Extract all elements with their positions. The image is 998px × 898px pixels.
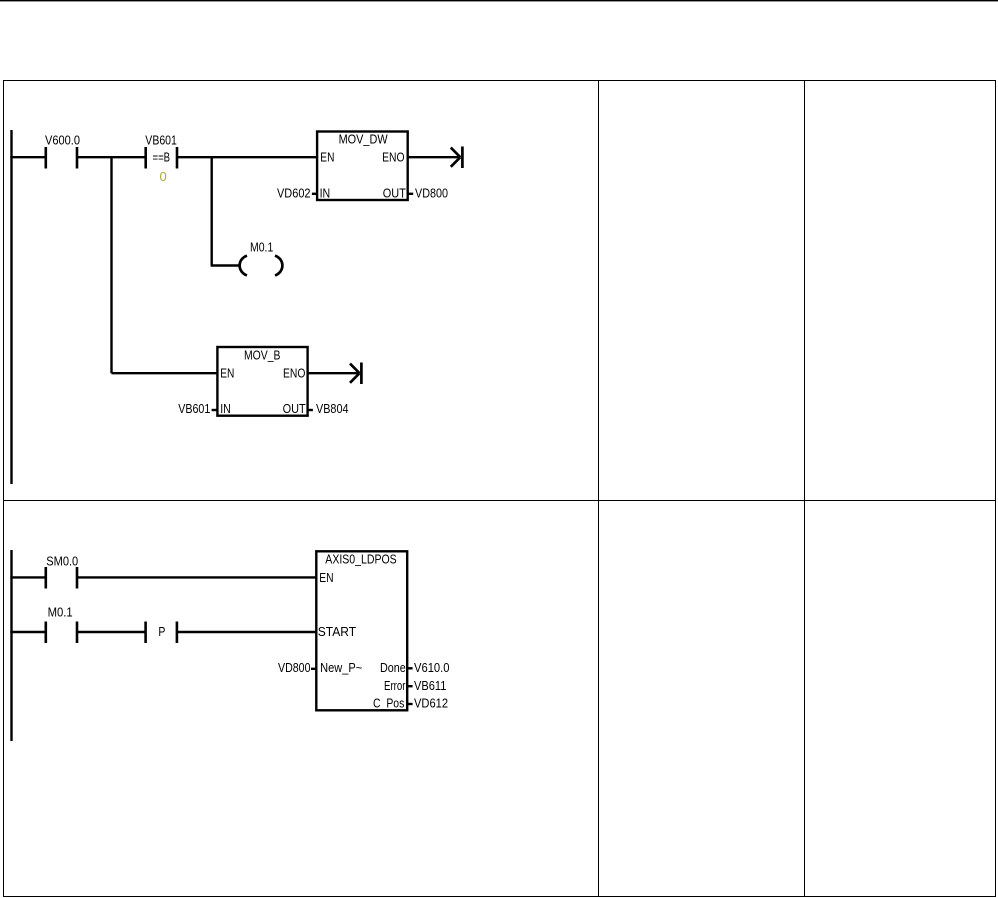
tick OUT to VB804: [308, 409, 313, 411]
svg-text:EN: EN: [220, 366, 234, 381]
svg-text:EN: EN: [319, 570, 333, 585]
svg-text:M0.1: M0.1: [48, 605, 73, 620]
svg-text:OUT: OUT: [283, 401, 306, 416]
contact ==B (compare byte): [146, 147, 177, 169]
svg-text:VB601: VB601: [178, 401, 210, 416]
tick Done to V610.0: [406, 667, 413, 669]
wire P to START: [177, 631, 316, 633]
wire SM0.0 to AXIS0_LDPOS EN: [77, 576, 316, 578]
network 1 left power rail: [10, 130, 12, 484]
table column divider 2: [804, 80, 806, 897]
svg-text:P: P: [158, 624, 165, 639]
svg-text:==B: ==B: [153, 149, 171, 164]
box MOV_DW: [317, 132, 408, 201]
svg-text:VB804: VB804: [316, 401, 349, 416]
wire ==B to MOV_DW EN: [177, 156, 317, 158]
top page rule: [0, 0, 998, 1]
svg-text:ENO: ENO: [283, 366, 305, 381]
open-wire arrow (network 1 rung): [451, 147, 463, 169]
svg-text:VB611: VB611: [414, 678, 446, 693]
svg-text:Done: Done: [380, 660, 406, 675]
branch wire down to coil M0.1: [210, 156, 212, 265]
svg-text:V600.0: V600.0: [45, 133, 80, 148]
tick Error to VB611: [406, 685, 413, 687]
contact SM0.0: [46, 567, 77, 589]
svg-text:START: START: [318, 624, 357, 639]
contact V600.0: [46, 147, 77, 169]
tick C_Pos to VD612: [406, 703, 413, 705]
tick VB601 to IN: [212, 409, 218, 411]
svg-text:M0.1: M0.1: [250, 240, 273, 255]
svg-text:New_P~: New_P~: [320, 660, 362, 675]
svg-text:V610.0: V610.0: [414, 660, 450, 675]
wire rail to contact V600.0: [10, 156, 46, 158]
wire V600.0 to ==B contact: [77, 156, 146, 158]
wire rail to contact SM0.0: [10, 576, 46, 578]
coil M0.1: [240, 256, 283, 276]
wire ENO out (MOV_DW): [408, 156, 460, 158]
wire rail to contact M0.1: [10, 631, 46, 633]
svg-text:OUT: OUT: [383, 185, 406, 200]
wire branch to MOV_B EN: [112, 372, 218, 374]
branch wire down to MOV_B rung: [110, 156, 112, 373]
svg-text:VD800: VD800: [415, 185, 448, 200]
svg-text:VD602: VD602: [277, 185, 311, 200]
tick OUT to VD800: [408, 193, 414, 195]
svg-text:SM0.0: SM0.0: [46, 553, 78, 568]
svg-text:VD800: VD800: [278, 660, 311, 675]
wire M0.1 to P contact: [77, 631, 146, 633]
wire ENO out (MOV_B): [308, 372, 359, 374]
tick VD602 to IN: [312, 193, 317, 195]
svg-text:0: 0: [160, 169, 167, 184]
svg-text:Error: Error: [384, 678, 406, 693]
tick VD800 to New_P~: [311, 668, 316, 670]
svg-text:AXIS0_LDPOS: AXIS0_LDPOS: [325, 552, 397, 567]
box MOV_B: [217, 347, 307, 416]
table column divider 1: [598, 80, 600, 897]
open-wire arrow (MOV_B rung): [350, 363, 361, 385]
svg-text:IN: IN: [320, 185, 331, 200]
network 2 left power rail: [10, 550, 12, 741]
svg-text:MOV_DW: MOV_DW: [339, 131, 389, 146]
box AXIS0_LDPOS: [316, 551, 407, 710]
contact M0.1: [46, 622, 77, 644]
svg-text:ENO: ENO: [382, 150, 404, 165]
svg-text:EN: EN: [320, 150, 334, 165]
svg-text:MOV_B: MOV_B: [244, 348, 281, 363]
svg-text:C_Pos: C_Pos: [373, 696, 405, 711]
svg-text:VD612: VD612: [414, 696, 448, 711]
wire branch to coil: [211, 264, 241, 266]
contact P (positive edge): [146, 622, 177, 644]
table row divider: [3, 500, 995, 502]
svg-text:VB601: VB601: [145, 133, 177, 148]
svg-text:IN: IN: [220, 401, 231, 416]
